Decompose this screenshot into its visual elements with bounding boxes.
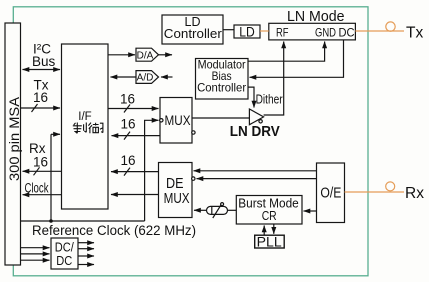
bus slash Rx16 (34, 167, 40, 175)
svg-text:DC: DC (56, 253, 72, 268)
svg-text:Tx: Tx (406, 24, 423, 41)
svg-text:300 pin MSA: 300 pin MSA (7, 97, 22, 181)
fiber loop Rx (386, 182, 395, 191)
wire MUX to LN DRV (192, 117, 249, 119)
module 300 pin MSA (5, 23, 21, 265)
svg-text:GND: GND (315, 25, 336, 39)
wire DC/DC input 3 (21, 259, 50, 261)
wire I2C bus double arrow (23, 69, 61, 71)
wire Rx data 16 DEMUX to IF (111, 171, 159, 173)
border frame (13, 7, 368, 276)
wire CR to PLL (273, 224, 275, 234)
wire IF to D/A (108, 54, 135, 56)
svg-text:CR: CR (262, 209, 277, 223)
svg-text:16: 16 (33, 154, 48, 169)
wire DC/DC output 4 (78, 264, 94, 266)
bus slash (124, 132, 130, 140)
amplifier LN DRV (249, 109, 263, 125)
pin bubble MUX right (192, 131, 195, 134)
bus slash Tx16 (32, 104, 38, 112)
block LN modulator (269, 23, 356, 40)
junction dot (49, 219, 53, 223)
svg-text:Controller: Controller (164, 27, 222, 41)
wire DC/DC output 1 (78, 242, 94, 244)
block DEMUX (159, 163, 193, 218)
block PLL (255, 235, 285, 248)
fiber O/E to Rx (345, 191, 405, 193)
fiber LD to LN (260, 30, 269, 32)
wire reference clock branch to IF (50, 134, 52, 221)
wire O/E to Burst Mode CR (304, 210, 317, 212)
attenuator VOA (207, 206, 228, 214)
bus slash (124, 105, 130, 113)
wire CR to attenuator (228, 209, 237, 211)
svg-text:I/F: I/F (78, 111, 91, 123)
svg-text:LN DRV: LN DRV (230, 124, 280, 140)
block I/F control U-IF (62, 44, 109, 209)
svg-text:MUX: MUX (164, 190, 190, 207)
wire attenuator to DEMUX (194, 209, 207, 211)
wire reference clock horizontal (21, 220, 145, 222)
wire LN DRV output to RF (264, 42, 284, 116)
svg-text:MUX: MUX (165, 113, 191, 128)
wire DC/DC input 1 (21, 247, 50, 249)
svg-text:Rx: Rx (405, 185, 424, 202)
block LD (234, 25, 260, 38)
wire DC pin to MBC (250, 40, 344, 77)
bus slash (124, 168, 130, 176)
wire A/D to IF (111, 76, 137, 78)
wire MBC to GND pin (248, 42, 325, 62)
wire A/D input stub (161, 76, 173, 78)
block O/E (317, 163, 345, 223)
block DC/DC (51, 238, 78, 269)
wire Dither MBC to LN DRV (248, 87, 254, 107)
svg-text:16: 16 (120, 92, 135, 107)
wire LD Controller to LD (223, 29, 234, 31)
fiber loop Tx (386, 22, 395, 31)
wire DC/DC output 3 (78, 255, 94, 257)
block Modulator Bias Controller (196, 59, 249, 100)
converter D/A (136, 48, 159, 61)
wire O/E to DEMUX clock (197, 178, 317, 180)
converter A/D (136, 71, 159, 84)
wire clock DEMUX to IF (111, 194, 159, 196)
svg-text:LD: LD (239, 24, 255, 39)
svg-text:Clock: Clock (25, 180, 49, 195)
wire Clock IF to MSA (23, 194, 62, 196)
svg-text:16: 16 (121, 117, 136, 132)
wire reference clock riser to MUX (145, 120, 159, 221)
block LD Controller (162, 15, 223, 44)
wire Tx16 MSA to IF (21, 107, 61, 109)
svg-text:16: 16 (121, 153, 136, 168)
block MUX (160, 98, 192, 144)
svg-text:16: 16 (33, 90, 48, 105)
svg-text:Reference Clock (622 MHz): Reference Clock (622 MHz) (32, 223, 196, 238)
svg-text:DC: DC (339, 25, 355, 39)
svg-text:D/A: D/A (137, 50, 154, 61)
svg-text:Controller: Controller (197, 81, 246, 95)
pin bubble MUX left (160, 119, 163, 122)
svg-text:RF: RF (276, 25, 289, 39)
svg-text:Bus: Bus (32, 54, 56, 69)
wire MUX loop to IF (112, 135, 161, 137)
wire D/A output stub (159, 54, 173, 56)
wire DC/DC input 2 (21, 253, 50, 255)
wire PLL to CR (263, 226, 265, 236)
wire O/E to DEMUX data (194, 170, 317, 172)
svg-text:O/E: O/E (320, 185, 341, 202)
svg-text:LN Mode: LN Mode (287, 9, 345, 25)
label seigyo (control) kanji (73, 123, 103, 134)
svg-text:A/D: A/D (137, 73, 154, 84)
pin bubble DEMUX right (192, 177, 195, 180)
wire Rx16 IF to MSA (23, 170, 62, 172)
wire Tx data 16 IF to MUX (108, 108, 159, 110)
fiber LN to Tx (355, 30, 404, 32)
svg-text:Dither: Dither (256, 92, 284, 107)
wire DC/DC output 2 (78, 248, 94, 250)
block Burst Mode CR (236, 196, 302, 225)
svg-text:PLL: PLL (257, 234, 282, 250)
